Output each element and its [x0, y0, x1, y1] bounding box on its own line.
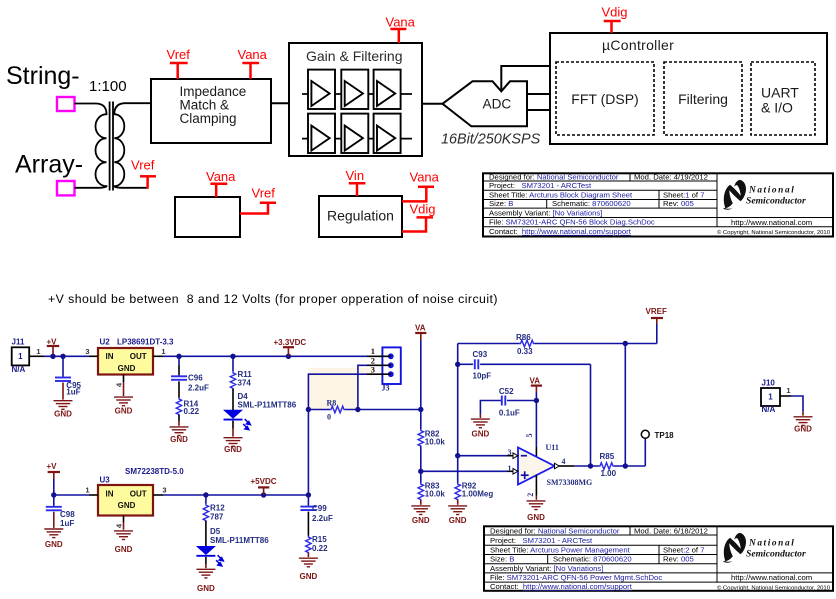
- ground at D4: [224, 438, 243, 454]
- ground at R15: [299, 558, 318, 581]
- junction at +V: [50, 354, 55, 359]
- svg-text:Mod. Date: 4/19/2012: Mod. Date: 4/19/2012: [634, 172, 708, 181]
- svg-text:Project: SM73201 - ARCTest: Project: SM73201 - ARCTest: [489, 181, 592, 190]
- svg-text:GND: GND: [54, 410, 72, 419]
- wire +V to U3: [54, 494, 89, 496]
- junction at C95: [60, 354, 65, 359]
- svg-text:4: 4: [562, 457, 566, 466]
- svg-text:Assembly Variant: [No Variatio: Assembly Variant: [No Variations]: [489, 208, 602, 217]
- svg-text:Size: B: Size: B: [490, 555, 514, 564]
- transformer T1 primary winding + wires: [75, 104, 107, 188]
- junction at C99: [306, 492, 311, 497]
- capacitor C98: [46, 495, 75, 528]
- svg-text:U2: U2: [100, 338, 111, 347]
- svg-text:GND: GND: [118, 364, 136, 373]
- power +V (5V rail): [47, 462, 61, 495]
- power Vdig above uController: [602, 5, 628, 34]
- svg-text:Vref: Vref: [131, 158, 155, 173]
- svg-text:J10: J10: [762, 378, 776, 387]
- svg-text:GND: GND: [300, 572, 318, 581]
- svg-text:1uF: 1uF: [60, 519, 74, 528]
- resistor R8: [327, 398, 421, 421]
- svg-text:SML-P11MTT86: SML-P11MTT86: [210, 536, 269, 545]
- power +5VDC: [251, 477, 277, 495]
- svg-text:VA: VA: [415, 324, 426, 333]
- ground at D5: [196, 569, 215, 593]
- resistor R11: [230, 356, 252, 410]
- pin 1 of J3: [367, 346, 391, 356]
- svg-text:Designed for: National Semicon: Designed for: National Semiconductor: [489, 172, 619, 181]
- wire J10 to ground: [791, 396, 803, 416]
- connector pad String-: [57, 97, 75, 111]
- svg-text:Rev: 005: Rev: 005: [663, 555, 694, 564]
- op-amp U11: [518, 443, 592, 487]
- junction output/VREF column: [623, 463, 628, 468]
- junction R8 mid: [355, 407, 360, 412]
- junction at op-amp + wire: [418, 469, 423, 474]
- regulator U2 LP38691DT-3.3: [98, 338, 174, 375]
- svg-text:µController: µController: [602, 37, 674, 53]
- LED D5 SML-P11MTT86: [196, 527, 269, 568]
- resistor R14: [176, 398, 199, 426]
- pin 1 of J10: [780, 386, 791, 396]
- svg-text:Vana: Vana: [410, 170, 440, 185]
- svg-text:N/A: N/A: [12, 365, 26, 374]
- wire ADC to uController upper: [527, 93, 550, 95]
- svg-text:2.2uF: 2.2uF: [312, 514, 333, 523]
- svg-text:4: 4: [115, 523, 124, 528]
- svg-text:1: 1: [85, 486, 89, 495]
- block ADC: [443, 81, 528, 126]
- svg-text:1.00Meg: 1.00Meg: [462, 489, 494, 498]
- svg-text:1: 1: [786, 386, 790, 395]
- svg-text:Contact: http://www.national.: Contact: http://www.national.com/support: [490, 582, 633, 591]
- svg-text:1.00: 1.00: [601, 469, 617, 478]
- title block 1 frame: [483, 173, 833, 236]
- transformer T1 core: [110, 102, 113, 191]
- pin 3 of U3: [153, 486, 167, 495]
- svg-text:1: 1: [508, 464, 512, 473]
- svg-text:3: 3: [85, 347, 89, 356]
- svg-text:J3: J3: [382, 383, 390, 392]
- junction feedback/VREF: [623, 341, 628, 346]
- svg-text:File: SM73201-ARC QFN-56 Power: File: SM73201-ARC QFN-56 Power Mgmt.SchD…: [490, 573, 662, 582]
- svg-text:Filtering: Filtering: [678, 91, 728, 107]
- svg-text:10.0k: 10.0k: [425, 438, 446, 447]
- ground at C52: [471, 419, 490, 439]
- wire feedback top row: [458, 343, 519, 345]
- svg-text:0.1uF: 0.1uF: [499, 409, 520, 418]
- connector pad Array-: [57, 181, 75, 195]
- svg-text:Sheet:2 of 7: Sheet:2 of 7: [663, 546, 704, 555]
- svg-text:VA: VA: [530, 376, 541, 385]
- ground at R92: [448, 506, 467, 525]
- ground at C95: [54, 401, 73, 419]
- svg-text:+V: +V: [47, 462, 58, 471]
- power VA upper: [415, 324, 426, 341]
- svg-text:2.2uF: 2.2uF: [188, 383, 209, 392]
- svg-text:R86: R86: [516, 333, 531, 342]
- resistor R15: [306, 535, 328, 557]
- svg-text:Schematic: 870600620: Schematic: 870600620: [552, 199, 631, 208]
- amplifier cells row 1: [308, 70, 401, 109]
- svg-text:C93: C93: [473, 350, 488, 359]
- region shaded area near J3: [308, 368, 373, 375]
- svg-text:C52: C52: [499, 387, 514, 396]
- svg-text:Vana: Vana: [386, 15, 416, 30]
- amplifier row 1 line: [302, 93, 412, 95]
- capacitor C99: [300, 495, 333, 536]
- resistor R85: [599, 452, 646, 478]
- svg-text:Contact: http://www.national.: Contact: http://www.national.com/support: [489, 227, 632, 236]
- svg-text:2: 2: [526, 493, 535, 497]
- junction C52/VA: [534, 398, 539, 403]
- svg-text:Gain & Filtering: Gain & Filtering: [306, 48, 402, 64]
- resistor R12: [203, 495, 225, 546]
- wire Impedance to Gain: [271, 102, 289, 104]
- svg-text:GND: GND: [472, 430, 490, 439]
- svg-text:OUT: OUT: [130, 489, 147, 498]
- svg-text:1uF: 1uF: [66, 388, 80, 397]
- svg-text:D5: D5: [210, 527, 221, 536]
- svg-text:N/A: N/A: [762, 405, 776, 414]
- pin 1 of J11: [29, 347, 44, 356]
- capacitor C52: [480, 387, 536, 418]
- svg-text:© Copyright, National Semicond: © Copyright, National Semiconductor, 201…: [717, 229, 831, 236]
- power Vref at transformer secondary: [131, 158, 156, 189]
- svg-text:Vana: Vana: [238, 47, 268, 62]
- svg-text:© Copyright, National Semicond: © Copyright, National Semiconductor, 201…: [717, 585, 831, 592]
- capacitor C96: [171, 356, 209, 397]
- svg-text:http://www.national.com: http://www.national.com: [731, 573, 812, 582]
- wire VA to op-amp pin5: [535, 392, 537, 447]
- block Regulation: [319, 196, 402, 237]
- wire op-amp minus column: [457, 344, 459, 456]
- wire C93 down to output: [590, 364, 592, 466]
- svg-text:787: 787: [210, 512, 224, 521]
- ground at J10: [794, 417, 813, 434]
- svg-text:GND: GND: [197, 584, 215, 593]
- svg-text:National: National: [748, 185, 795, 195]
- svg-text:3: 3: [162, 486, 166, 495]
- junction minus input: [455, 453, 460, 458]
- svg-text:374: 374: [238, 379, 252, 388]
- junction output/C93: [588, 463, 593, 468]
- power VA at op-amp: [530, 376, 543, 392]
- title block 2 frame: [484, 526, 833, 591]
- svg-text:GND: GND: [527, 513, 545, 522]
- capacitor C95: [55, 356, 82, 399]
- svg-text:GND: GND: [115, 545, 133, 554]
- wire Gain to ADC: [422, 103, 443, 105]
- svg-text:Sheet Title: Arcturus Power Ma: Sheet Title: Arcturus Power Management: [490, 546, 631, 555]
- wire U3 out to C99 column: [163, 494, 308, 496]
- title2 logo swoosh: [723, 533, 746, 563]
- svg-text:Mod. Date: 6/18/2012: Mod. Date: 6/18/2012: [634, 526, 708, 535]
- wire ADC notch to uController: [501, 66, 550, 91]
- wire op-amp output: [559, 465, 574, 467]
- wire J3 pin3 down to R8 wire: [308, 374, 367, 409]
- wire VA down through R8 junction: [420, 340, 422, 429]
- svg-text:Designed for: National Semicon: Designed for: National Semiconductor: [490, 526, 620, 535]
- junction R8 left: [306, 407, 311, 412]
- svg-text:+V should be between 8 and 12: +V should be between 8 and 12 Volts (for…: [48, 292, 498, 306]
- title1 logo swoosh: [723, 180, 746, 210]
- power Vref right of unnamed block: [240, 186, 276, 214]
- svg-text:1:100: 1:100: [89, 78, 127, 95]
- svg-text:Array-: Array-: [15, 151, 83, 179]
- svg-text:U3: U3: [100, 476, 111, 485]
- svg-text:10pF: 10pF: [473, 371, 492, 380]
- wire U2 out to J3: [163, 355, 367, 357]
- svg-text:U11: U11: [546, 443, 559, 452]
- junction R8 right: [418, 407, 423, 412]
- svg-text:GND: GND: [412, 516, 430, 525]
- power Vana above Gain block: [386, 15, 416, 44]
- block Gain & Filtering: [289, 43, 422, 156]
- svg-text:C99: C99: [312, 504, 327, 513]
- power Vdig right of Regulation: [402, 202, 436, 232]
- pin 3 of J3: [367, 364, 391, 374]
- power Vana right of Regulation: [402, 170, 440, 202]
- wire VREF feedback column: [624, 344, 626, 467]
- power Vin above Regulation: [346, 168, 366, 196]
- block UART & I/O: [751, 62, 815, 135]
- svg-text:1: 1: [36, 347, 40, 356]
- svg-text:GND: GND: [449, 516, 467, 525]
- pin 2 of J3: [367, 355, 391, 365]
- svg-text:0.22: 0.22: [184, 407, 200, 416]
- svg-text:Rev: 005: Rev: 005: [663, 199, 694, 208]
- svg-text:0.33: 0.33: [517, 347, 533, 356]
- power Vref above Impedance block: [167, 47, 191, 79]
- svg-text:SM73308MG: SM73308MG: [547, 478, 593, 487]
- svg-text:Clamping: Clamping: [180, 111, 237, 126]
- resistor R92: [455, 456, 493, 505]
- svg-text:3: 3: [371, 364, 375, 374]
- pin 2 of U11 with ground: [526, 475, 546, 522]
- svg-text:R85: R85: [600, 452, 615, 461]
- svg-text:16Bit/250KSPS: 16Bit/250KSPS: [441, 132, 541, 148]
- svg-text:Vref: Vref: [167, 47, 191, 62]
- junction at C96: [176, 354, 181, 359]
- junction C93 left: [455, 362, 460, 367]
- wire J11 to U2: [44, 355, 89, 357]
- regulator U3 SM72238TD-5.0: [98, 467, 184, 516]
- block uController: [550, 33, 827, 144]
- ground at R14: [170, 427, 189, 444]
- block unnamed (reference block): [175, 197, 240, 237]
- svg-text:4: 4: [115, 382, 124, 387]
- svg-text:Size: B: Size: B: [489, 199, 513, 208]
- pin 3 of U2: [85, 347, 98, 356]
- connector J11: [12, 338, 30, 375]
- block FFT (DSP): [556, 62, 654, 135]
- connector J3: [382, 347, 401, 392]
- svg-text:Vref: Vref: [252, 186, 276, 201]
- svg-text:http://www.national.com: http://www.national.com: [731, 218, 812, 227]
- svg-text:+3.3VDC: +3.3VDC: [274, 338, 307, 347]
- svg-text:File: SM73201-ARC QFN-56 Block: File: SM73201-ARC QFN-56 Block Diag.SchD…: [489, 218, 655, 227]
- svg-text:ADC: ADC: [483, 97, 512, 112]
- svg-text:+5VDC: +5VDC: [251, 477, 277, 486]
- power +V (3.3V rail): [47, 338, 60, 357]
- svg-text:National: National: [748, 538, 795, 548]
- svg-text:R8: R8: [327, 398, 337, 407]
- svg-text:OUT: OUT: [130, 352, 147, 361]
- pin 4 of U11 (output): [555, 457, 566, 469]
- svg-text:& I/O: & I/O: [761, 100, 793, 116]
- svg-text:GND: GND: [794, 425, 812, 434]
- svg-text:1: 1: [18, 352, 23, 361]
- connector J10: [761, 378, 780, 414]
- svg-text:C96: C96: [188, 374, 203, 383]
- svg-text:VREF: VREF: [646, 307, 667, 316]
- svg-text:C98: C98: [60, 510, 75, 519]
- svg-text:0.22: 0.22: [312, 544, 328, 553]
- wire down to 5V rail: [307, 410, 309, 496]
- svg-text:Assembly Variant: [No Variatio: Assembly Variant: [No Variations]: [490, 564, 603, 573]
- svg-text:TP18: TP18: [655, 431, 675, 440]
- svg-text:GND: GND: [45, 540, 63, 549]
- svg-text:5: 5: [525, 434, 534, 438]
- transformer T1 secondary winding + wires: [114, 103, 151, 188]
- svg-text:GND: GND: [118, 501, 136, 510]
- junction at +3.3VDC: [286, 354, 291, 359]
- svg-text:Vdig: Vdig: [410, 202, 436, 217]
- svg-text:SML-P11MTT86: SML-P11MTT86: [238, 401, 297, 410]
- wire R8 row: [308, 409, 329, 411]
- capacitor C93: [458, 350, 591, 380]
- pin 1 of U2: [153, 347, 166, 356]
- pin 4 of U3 with ground: [114, 516, 133, 554]
- svg-text:LP38691DT-3.3: LP38691DT-3.3: [117, 338, 174, 347]
- block Filtering: [664, 62, 742, 135]
- svg-text:0: 0: [327, 413, 331, 422]
- pin 4 of U2 with ground: [114, 375, 133, 416]
- power VREF: [646, 307, 667, 344]
- junction at +5VDC: [261, 492, 266, 497]
- pin 1 of U3: [85, 486, 98, 495]
- ground at R83: [411, 506, 430, 525]
- pin 1 of U11 (non-inverting): [421, 464, 518, 474]
- svg-text:1: 1: [768, 393, 773, 402]
- svg-text:J11: J11: [12, 338, 25, 347]
- LED D4 SML-P11MTT86: [223, 392, 297, 437]
- svg-text:String-: String-: [6, 62, 80, 90]
- power Vana above Impedance block: [238, 47, 268, 79]
- svg-text:GND: GND: [170, 435, 188, 444]
- svg-text:3: 3: [508, 448, 512, 457]
- svg-text:SM72238TD-5.0: SM72238TD-5.0: [125, 467, 184, 476]
- ground at C98: [44, 529, 63, 549]
- junction +V/C98: [51, 492, 56, 497]
- svg-text:UART: UART: [761, 85, 799, 101]
- resistor R86: [516, 333, 657, 356]
- svg-text:IN: IN: [106, 489, 114, 498]
- wire ADC to uController lower: [527, 109, 550, 111]
- junction at R11: [230, 354, 235, 359]
- svg-text:1: 1: [161, 347, 165, 356]
- resistor R83: [418, 471, 445, 505]
- pin 3 of U11 (inverting): [458, 448, 518, 459]
- svg-text:R15: R15: [312, 535, 327, 544]
- svg-text:Semiconductor: Semiconductor: [746, 196, 806, 207]
- svg-text:Vana: Vana: [206, 169, 236, 184]
- test point TP18: [641, 430, 674, 466]
- svg-text:Regulation: Regulation: [327, 208, 394, 224]
- resistor R82: [418, 429, 445, 471]
- svg-text:GND: GND: [224, 445, 242, 454]
- amplifier cells row 2: [308, 114, 401, 153]
- wire J3 pin2 down to R8: [358, 365, 367, 409]
- svg-text:R12: R12: [210, 503, 225, 512]
- svg-text:IN: IN: [106, 352, 114, 361]
- block Impedance Match & Clamping: [151, 79, 271, 143]
- svg-text:Schematic: 870600620: Schematic: 870600620: [553, 555, 632, 564]
- svg-text:GND: GND: [115, 407, 133, 416]
- svg-text:Vin: Vin: [346, 168, 365, 183]
- power Vana above unnamed block: [206, 169, 236, 197]
- power +3.3VDC: [274, 338, 307, 357]
- svg-text:FFT (DSP): FFT (DSP): [571, 91, 638, 107]
- svg-text:Semiconductor: Semiconductor: [746, 549, 806, 560]
- svg-text:10.0k: 10.0k: [425, 489, 446, 498]
- amplifier row 2 line: [302, 138, 412, 140]
- svg-text:Vdig: Vdig: [602, 5, 628, 20]
- svg-text:Project: SM73201 - ARCTest: Project: SM73201 - ARCTest: [490, 536, 593, 545]
- junction at R12: [203, 492, 208, 497]
